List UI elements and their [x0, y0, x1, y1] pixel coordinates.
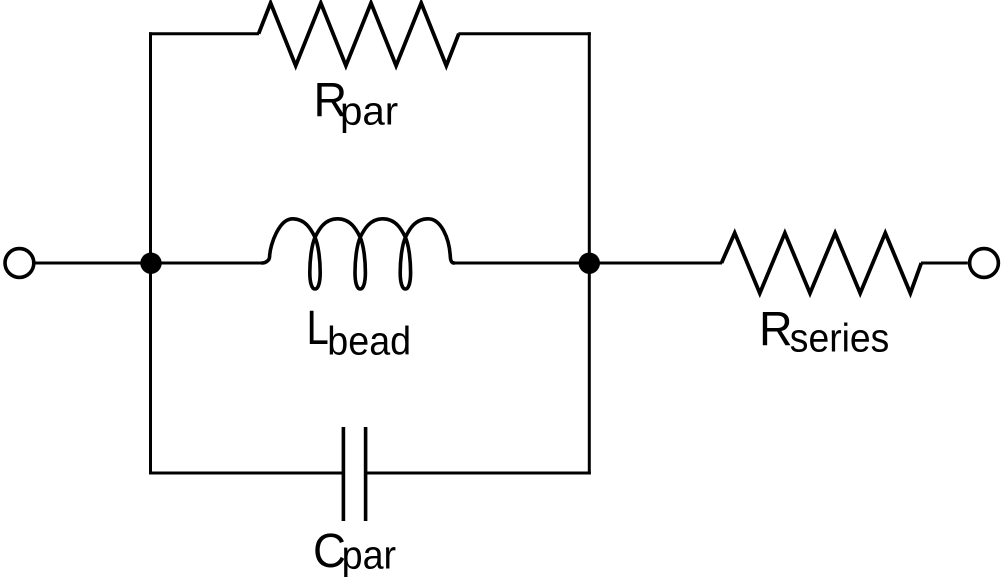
inductor Lbead [262, 219, 454, 289]
wire: bottom rail left lead [149, 472, 343, 475]
node B junction dot [579, 253, 600, 274]
wire: left vertical (node A down to bottom rail) [149, 263, 152, 475]
wire: inductor to node B [455, 262, 589, 265]
capacitor Cpar right plate [364, 427, 368, 521]
wire: right vertical (top rail down to node B) [588, 32, 591, 263]
resistor Rpar [259, 3, 459, 66]
svg-text:par: par [340, 89, 398, 133]
wire: left vertical (node A up to top rail) [149, 32, 152, 263]
wire: right vertical (node B down to bottom rail) [588, 263, 591, 475]
node A junction dot [140, 253, 161, 274]
capacitor Cpar left plate [342, 427, 346, 521]
svg-text:L: L [307, 302, 329, 355]
svg-text:series: series [790, 317, 890, 361]
right terminal [970, 249, 999, 278]
wire: node A to inductor [151, 262, 263, 265]
wire: Rseries to right terminal [921, 262, 968, 265]
svg-text:par: par [342, 534, 397, 578]
resistor Rseries [722, 233, 922, 293]
wire: top rail right lead [458, 32, 590, 35]
wire: node B to Rseries [589, 262, 722, 265]
svg-text:R: R [759, 303, 793, 356]
left terminal [5, 249, 34, 278]
svg-text:bead: bead [327, 319, 411, 363]
wire: left terminal to node A [34, 262, 151, 265]
wire: bottom rail right lead [366, 472, 591, 475]
wire: top rail left lead [149, 32, 259, 35]
